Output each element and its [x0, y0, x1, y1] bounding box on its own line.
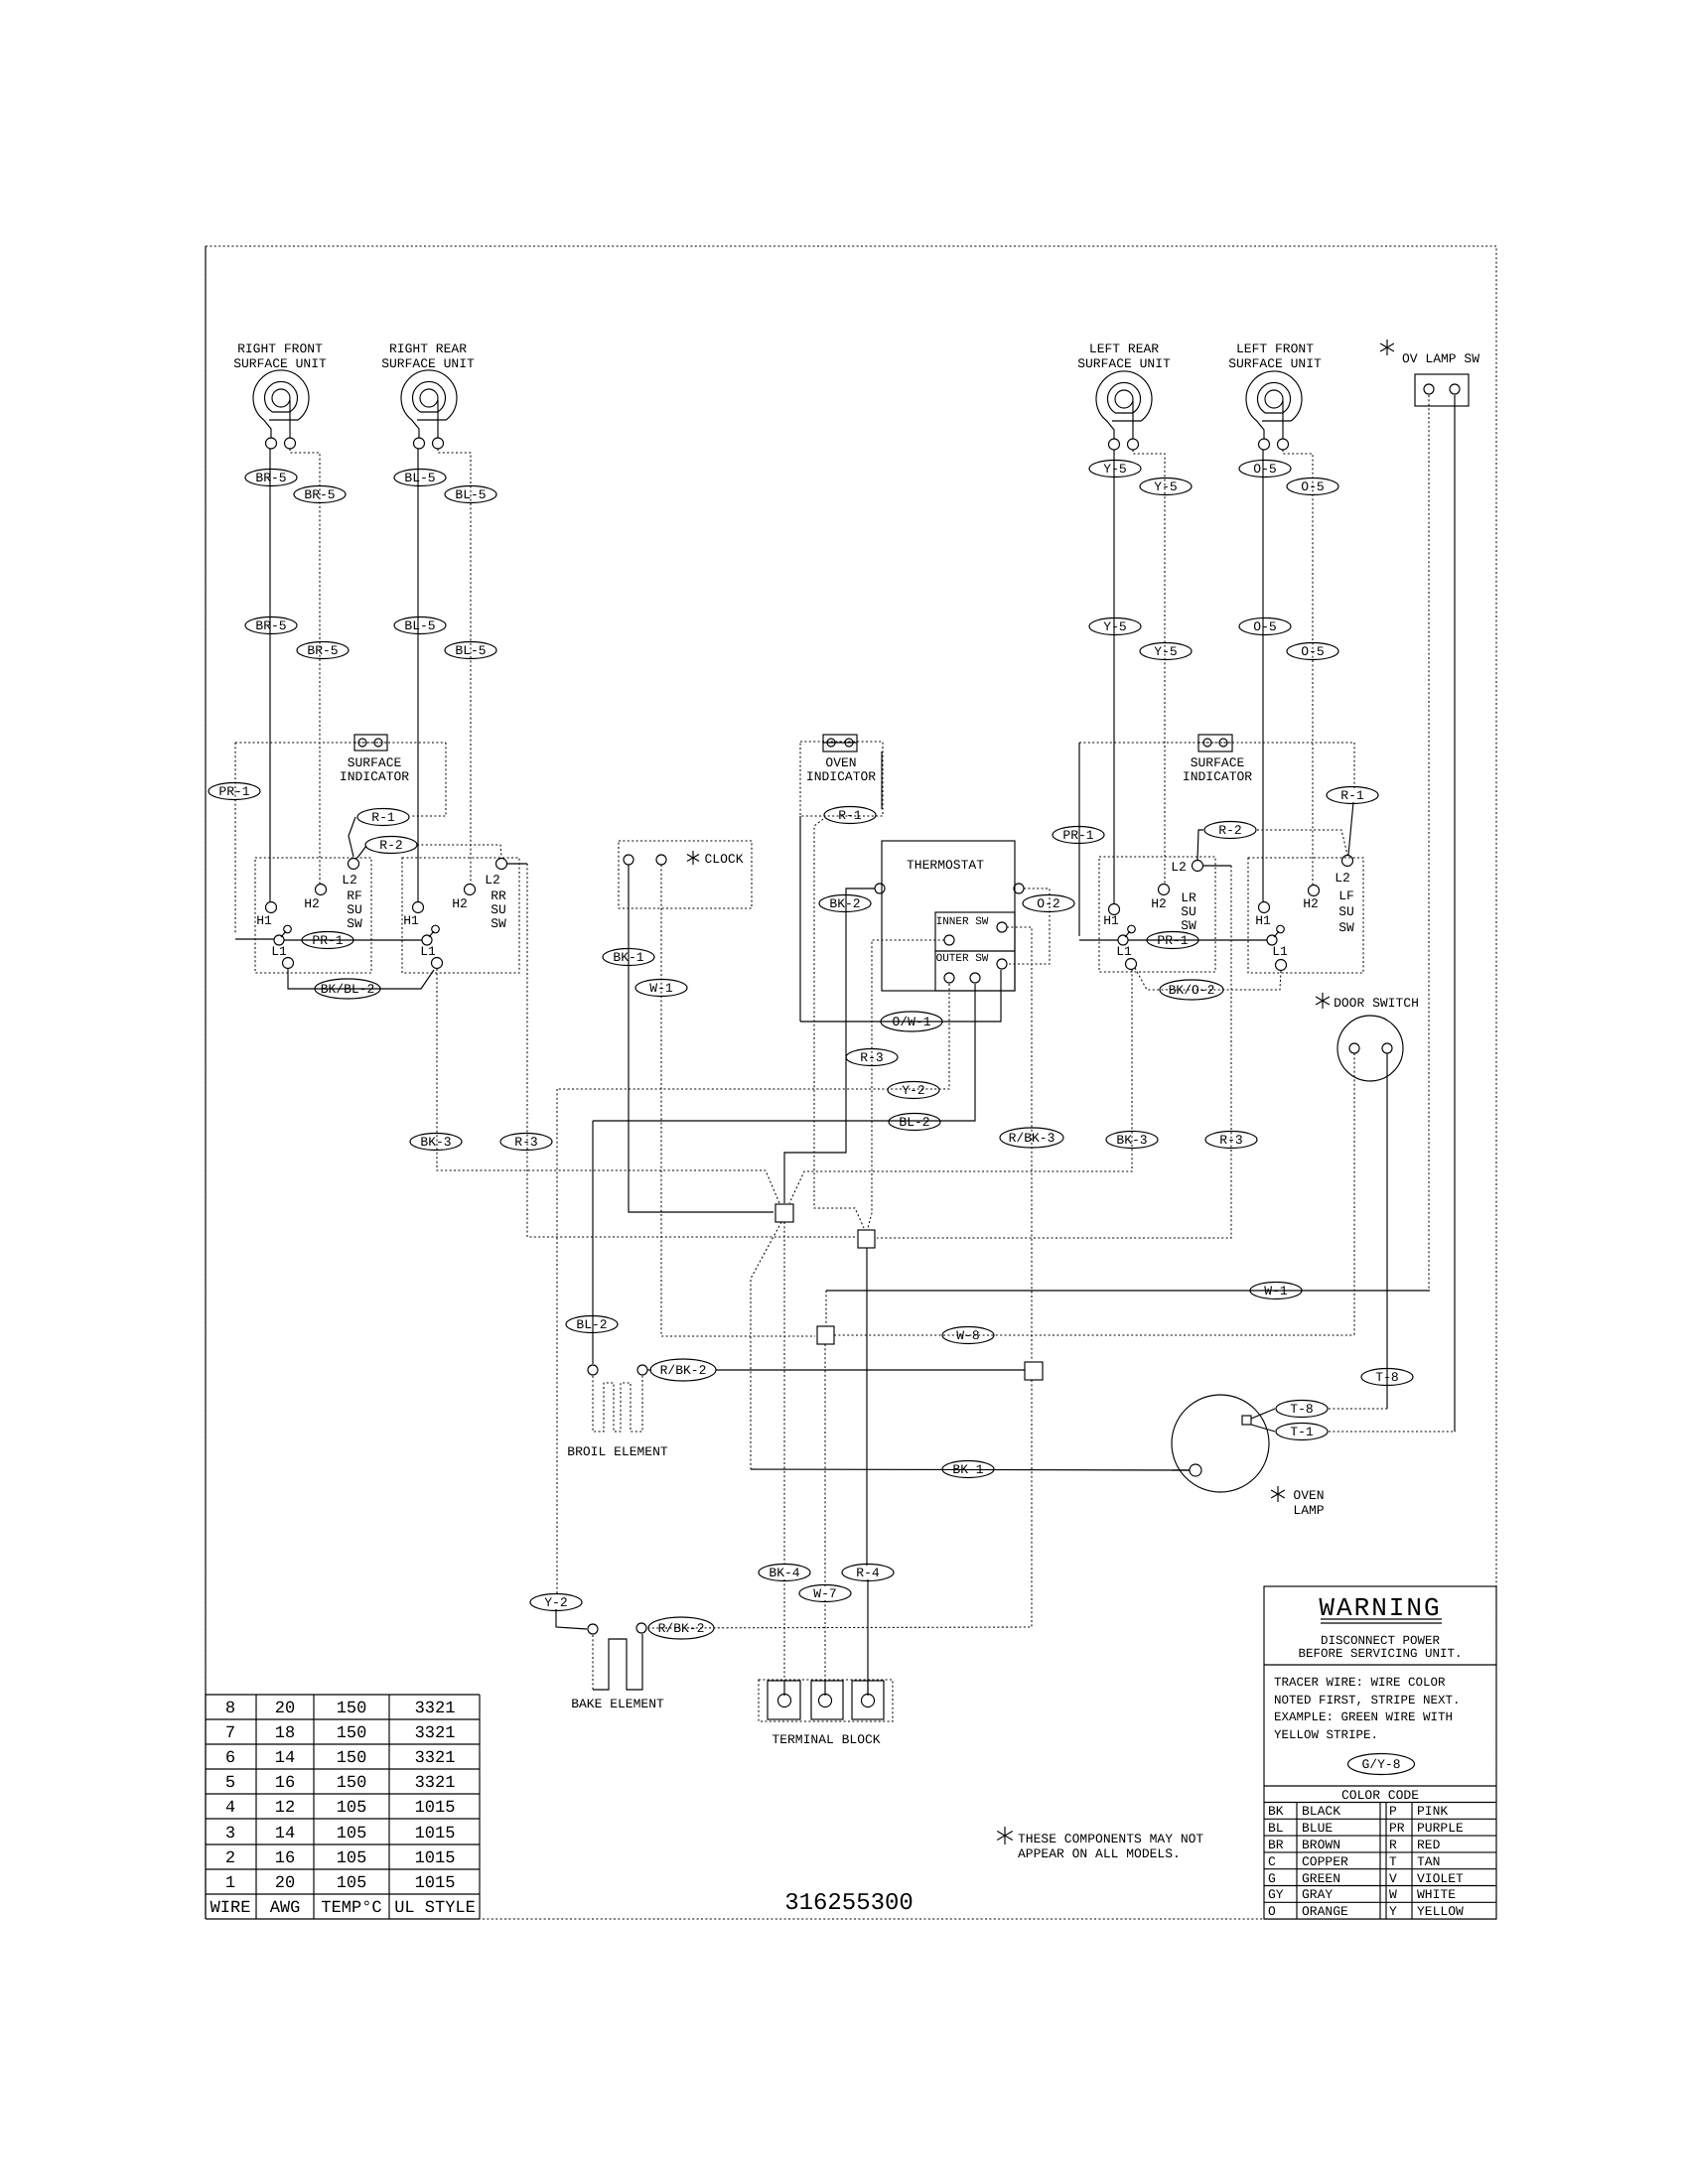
svg-text:R/BK-2: R/BK-2 — [658, 1621, 705, 1636]
wire PR-1 RF-RR pivot bus — [284, 939, 422, 941]
wire label BK-4 — [759, 1565, 810, 1581]
door switch — [1337, 1016, 1403, 1081]
color code table — [1264, 1788, 1496, 1919]
page border left edge — [205, 246, 207, 1919]
svg-text:T-8: T-8 — [1290, 1402, 1313, 1417]
svg-text:TRACER WIRE: WIRE COLOR: TRACER WIRE: WIRE COLOR — [1274, 1676, 1446, 1690]
svg-text:L2: L2 — [342, 873, 357, 887]
svg-text:1015: 1015 — [415, 1799, 456, 1818]
svg-text:SURFACE UNIT: SURFACE UNIT — [1228, 356, 1322, 371]
wire label Y-2 bus — [888, 1082, 939, 1099]
terminal inner sw right — [997, 922, 1007, 932]
thermostat inner switch box — [935, 912, 1015, 951]
svg-text:PR-1: PR-1 — [1157, 933, 1188, 948]
svg-text:LR: LR — [1181, 890, 1196, 905]
thermostat outer switch box — [935, 951, 1015, 991]
svg-text:BL-5: BL-5 — [404, 618, 435, 633]
svg-text:18: 18 — [275, 1724, 295, 1743]
wire T-1 to ov lamp sw — [1329, 1431, 1456, 1433]
wire W-7 junction 3 to terminal block — [824, 1344, 826, 1586]
wire label BK-2 — [819, 895, 871, 912]
svg-text:SURFACE: SURFACE — [348, 755, 402, 770]
terminal bake element left — [588, 1624, 598, 1634]
wire label O-5 a — [1239, 461, 1291, 478]
wire BK-1 junction 1 drop — [751, 1222, 781, 1469]
svg-text:Y: Y — [1389, 1904, 1397, 1919]
svg-text:OVEN: OVEN — [825, 755, 856, 770]
terminal thermostat right — [1014, 884, 1024, 893]
svg-text:H2: H2 — [1303, 896, 1319, 911]
wire label O-5 d — [1287, 643, 1338, 660]
svg-text:DOOR SWITCH: DOOR SWITCH — [1334, 996, 1419, 1011]
svg-text:INDICATOR: INDICATOR — [1183, 769, 1252, 784]
wire label BL-5 b — [445, 486, 496, 503]
svg-text:RR: RR — [491, 888, 506, 903]
wire T-8 to door switch drop — [1329, 1408, 1387, 1410]
wire label R-2 left — [365, 837, 417, 854]
svg-text:L1: L1 — [271, 944, 287, 959]
svg-text:R: R — [1389, 1838, 1397, 1852]
wire R-1 into LF L2 — [1348, 802, 1353, 855]
wire gauge table — [206, 1695, 480, 1919]
surface indicator (left) — [354, 735, 387, 751]
svg-text:Y-5: Y-5 — [1154, 479, 1177, 494]
wire O/W-1 oven indicator left drop — [799, 816, 801, 1022]
terminal LR L1 — [1126, 959, 1137, 970]
svg-text:WHITE: WHITE — [1417, 1887, 1456, 1902]
wire label BR-5 b — [294, 486, 346, 503]
svg-text:SU: SU — [1181, 904, 1196, 919]
svg-text:P: P — [1389, 1804, 1397, 1819]
wire R-1 right indicator vertical — [1353, 743, 1355, 788]
terminal outer sw mid — [970, 973, 980, 983]
wire label R-4 — [842, 1565, 894, 1581]
wire label R-3 x531 — [500, 1134, 552, 1151]
wire BL-2 vertical x597 — [592, 1121, 594, 1364]
svg-text:20: 20 — [275, 1874, 295, 1893]
junction square 1 — [775, 1204, 793, 1222]
svg-text:R-3: R-3 — [514, 1135, 537, 1150]
svg-text:NOTED FIRST, STRIPE NEXT.: NOTED FIRST, STRIPE NEXT. — [1274, 1694, 1461, 1707]
surface unit coil left rear — [1096, 371, 1152, 450]
svg-text:R-3: R-3 — [860, 1050, 883, 1065]
oven lamp — [1172, 1395, 1269, 1492]
terminal LF H2 — [1309, 886, 1320, 896]
svg-text:SU: SU — [347, 902, 362, 917]
wire R-4 junction 2 to terminal block — [866, 1248, 868, 1566]
svg-text:THESE COMPONENTS MAY NOT: THESE COMPONENTS MAY NOT — [1018, 1832, 1203, 1846]
svg-text:LEFT REAR: LEFT REAR — [1089, 341, 1159, 356]
svg-text:H2: H2 — [1151, 896, 1167, 911]
svg-text:16: 16 — [275, 1774, 295, 1793]
svg-text:GRAY: GRAY — [1302, 1887, 1333, 1902]
svg-text:O-5: O-5 — [1301, 644, 1324, 659]
terminal clock 1 — [624, 855, 633, 865]
wire PR-1/R-1 left indicator horizontal — [235, 742, 446, 744]
svg-text:UL STYLE: UL STYLE — [394, 1899, 476, 1918]
wire label Y-5 d — [1140, 643, 1192, 660]
bake element — [592, 1635, 594, 1690]
svg-text:H1: H1 — [1255, 913, 1271, 928]
wire R-2 to LF L2 — [1257, 830, 1347, 855]
junction square 4 — [1025, 1362, 1043, 1380]
wire PR-1 to RF pivot — [235, 938, 274, 940]
switch pivot LF — [1267, 925, 1284, 945]
wire R/BK-2 broil to junction 4 — [716, 1369, 1025, 1371]
wire label BK-1 bus — [942, 1461, 994, 1478]
wire BL-5 RR H1 drop — [417, 449, 419, 901]
wire BR-5 RF H1 drop — [269, 449, 271, 901]
wire BK-4 junction 1 to terminal block — [783, 1222, 785, 1567]
svg-text:H1: H1 — [256, 913, 272, 928]
surface unit coil right rear — [401, 370, 457, 449]
wire BK-1 clock to junction 1 — [629, 865, 774, 1212]
svg-text:BAKE ELEMENT: BAKE ELEMENT — [571, 1697, 664, 1711]
svg-text:H2: H2 — [452, 896, 468, 911]
switch pivot RR — [422, 925, 439, 945]
terminal broil element left — [588, 1365, 598, 1375]
wire PR-1 left vertical — [234, 743, 236, 934]
wire T-8 door switch right drop — [1386, 1053, 1388, 1409]
svg-text:3321: 3321 — [415, 1700, 456, 1718]
wire BK/O-2 LR L1 to LF L1 — [1135, 968, 1281, 990]
svg-text:AWG: AWG — [270, 1899, 301, 1918]
svg-text:PURPLE: PURPLE — [1417, 1821, 1464, 1836]
svg-text:PR: PR — [1389, 1821, 1405, 1836]
svg-text:105: 105 — [337, 1799, 367, 1818]
svg-text:BK-1: BK-1 — [613, 950, 643, 965]
svg-text:R/BK-2: R/BK-2 — [660, 1363, 707, 1378]
switch box RR SU SW — [402, 858, 519, 973]
wire PR-1 LR-LF pivot bus — [1128, 939, 1267, 941]
wire Y-5 LR H1 drop — [1113, 450, 1115, 903]
svg-text:14: 14 — [275, 1825, 295, 1843]
wire O-5 LF H1 drop — [1262, 450, 1264, 901]
wire label R-1 oven indicator — [824, 807, 876, 824]
svg-text:O-5: O-5 — [1253, 619, 1276, 634]
svg-text:W-8: W-8 — [956, 1328, 979, 1343]
svg-text:14: 14 — [275, 1749, 295, 1768]
svg-text:O/W-1: O/W-1 — [892, 1015, 930, 1029]
wire W-8 bus — [834, 1334, 1354, 1336]
svg-text:CLOCK: CLOCK — [704, 852, 743, 867]
svg-text:OV LAMP SW: OV LAMP SW — [1402, 351, 1479, 366]
asterisk door switch — [1316, 993, 1330, 1009]
svg-text:PINK: PINK — [1417, 1804, 1448, 1819]
wire R-2 to RR L2 — [417, 845, 501, 857]
switch box LR SU SW — [1099, 857, 1215, 972]
svg-text:H1: H1 — [1103, 913, 1119, 928]
svg-text:EXAMPLE: GREEN WIRE WITH: EXAMPLE: GREEN WIRE WITH — [1274, 1710, 1453, 1724]
wire label T-8 lamp — [1276, 1401, 1328, 1418]
ov lamp switch box — [1415, 374, 1469, 406]
svg-text:V: V — [1389, 1871, 1397, 1886]
wire BK-1 bus to oven lamp — [751, 1469, 1190, 1470]
wire label Y-5 b — [1140, 478, 1192, 495]
svg-text:RIGHT REAR: RIGHT REAR — [389, 341, 467, 356]
svg-text:Y-2: Y-2 — [902, 1083, 924, 1098]
svg-text:SW: SW — [1181, 918, 1196, 933]
svg-text:OVEN: OVEN — [1293, 1488, 1324, 1503]
wire R/BK-2 junction 4 to bake element — [647, 1380, 1032, 1628]
wire R-1 into RF L2 — [349, 817, 355, 857]
svg-text:H1: H1 — [403, 913, 419, 928]
svg-text:YELLOW: YELLOW — [1417, 1904, 1464, 1919]
svg-text:BK: BK — [1268, 1804, 1284, 1819]
svg-text:DISCONNECT POWER: DISCONNECT POWER — [1321, 1634, 1441, 1648]
svg-text:R-1: R-1 — [838, 808, 862, 823]
wire BK-2 thermostat to junction 1 — [784, 888, 875, 1203]
svg-text:12: 12 — [275, 1799, 295, 1818]
wire label G/Y-8 example — [1348, 1754, 1415, 1775]
svg-text:Y-5: Y-5 — [1103, 619, 1126, 634]
svg-text:INNER SW: INNER SW — [936, 916, 989, 928]
svg-text:OUTER SW: OUTER SW — [936, 953, 989, 965]
wire R/BK-3 inner sw to junction 4 — [1007, 927, 1032, 1361]
svg-text:4: 4 — [225, 1799, 235, 1818]
svg-text:T-8: T-8 — [1375, 1370, 1398, 1385]
svg-text:PR-1: PR-1 — [1062, 828, 1093, 843]
wire label BL-5 d — [445, 642, 496, 659]
wire Y-2 outer sw bus — [557, 984, 949, 1089]
svg-text:ORANGE: ORANGE — [1302, 1904, 1348, 1919]
wire W-1 ov lamp sw left drop — [1428, 395, 1430, 1291]
svg-text:RIGHT FRONT: RIGHT FRONT — [237, 341, 323, 356]
surface unit coil left front — [1246, 371, 1302, 450]
terminal RR L2 — [496, 859, 507, 870]
svg-text:2: 2 — [225, 1849, 235, 1868]
svg-text:COLOR CODE: COLOR CODE — [1341, 1788, 1419, 1803]
svg-text:R-2: R-2 — [1218, 823, 1241, 838]
wire Y-2 to bake element — [556, 1609, 587, 1629]
wire label BK-3 right — [1106, 1132, 1158, 1149]
svg-text:105: 105 — [337, 1849, 367, 1868]
svg-text:BL: BL — [1268, 1821, 1284, 1836]
terminal bake element right — [636, 1623, 646, 1633]
wire label BL-2 bus — [889, 1114, 940, 1131]
wire BK-4 lower — [783, 1579, 785, 1694]
svg-text:YELLOW STRIPE.: YELLOW STRIPE. — [1274, 1728, 1378, 1742]
svg-text:BK-3: BK-3 — [420, 1135, 451, 1150]
svg-text:BR-5: BR-5 — [304, 487, 335, 502]
svg-text:APPEAR ON ALL MODELS.: APPEAR ON ALL MODELS. — [1018, 1846, 1181, 1861]
svg-text:INDICATOR: INDICATOR — [340, 769, 409, 784]
switch box RF SU SW — [255, 858, 371, 973]
surface indicator (right) — [1198, 735, 1232, 751]
svg-text:L2: L2 — [1171, 860, 1187, 875]
terminal LF H1 — [1259, 902, 1270, 913]
wire PR-1 to LR pivot — [1079, 939, 1118, 941]
svg-text:3321: 3321 — [415, 1749, 456, 1768]
svg-text:R-4: R-4 — [856, 1566, 880, 1580]
terminal block — [759, 1680, 893, 1721]
wire Y-2 vertical x561 — [556, 1089, 558, 1595]
wire label W-1 bus — [1250, 1283, 1302, 1299]
svg-text:R-1: R-1 — [371, 810, 395, 825]
wire label O/W-1 — [881, 1012, 942, 1031]
wire W-1 junction 3 riser — [825, 1291, 827, 1326]
svg-text:BL-2: BL-2 — [576, 1317, 607, 1332]
terminal RR H2 — [465, 885, 476, 895]
wire label Y-5 a — [1089, 461, 1141, 478]
wire R-3 vertical x1240 to junction 2 — [877, 866, 1231, 1238]
wire label T-8 vertical — [1361, 1369, 1413, 1386]
asterisk oven lamp — [1271, 1486, 1285, 1502]
terminal LF L2 — [1342, 856, 1353, 867]
wire label R/BK-3 — [1000, 1128, 1063, 1148]
svg-text:T: T — [1389, 1854, 1397, 1869]
wire O/W-1 bus to outer sw — [800, 970, 1001, 1022]
wire label R-1 right — [1327, 787, 1378, 804]
svg-text:W-1: W-1 — [649, 981, 673, 996]
svg-text:1015: 1015 — [415, 1825, 456, 1843]
svg-text:L1: L1 — [420, 944, 436, 959]
wire label BK-3 left — [410, 1134, 462, 1151]
svg-text:T-1: T-1 — [1290, 1425, 1314, 1439]
svg-text:GY: GY — [1268, 1887, 1284, 1902]
svg-text:SU: SU — [1338, 904, 1354, 919]
wire label BL-2 broil — [566, 1316, 618, 1333]
wire R-3 from LR L2 — [1203, 865, 1231, 867]
wire label R-1 left — [357, 809, 409, 826]
terminal RF H1 — [266, 902, 277, 913]
svg-text:SURFACE UNIT: SURFACE UNIT — [1077, 356, 1171, 371]
wire R-1 oven indicator right drop — [881, 751, 883, 809]
svg-text:COPPER: COPPER — [1302, 1854, 1348, 1869]
svg-text:SURFACE UNIT: SURFACE UNIT — [381, 356, 475, 371]
terminal outer sw left — [944, 973, 954, 983]
svg-text:PR-1: PR-1 — [312, 933, 343, 948]
svg-text:150: 150 — [337, 1774, 367, 1793]
svg-text:PR-1: PR-1 — [218, 784, 249, 799]
terminal RR L1 — [432, 958, 443, 969]
wire BL-2 outer sw bus — [593, 984, 975, 1121]
svg-text:LF: LF — [1338, 888, 1354, 903]
svg-text:BEFORE SERVICING UNIT.: BEFORE SERVICING UNIT. — [1298, 1647, 1462, 1661]
thermostat box — [882, 841, 1015, 991]
svg-text:105: 105 — [337, 1825, 367, 1843]
wire label BL-5 a — [394, 470, 446, 486]
svg-text:GREEN: GREEN — [1302, 1871, 1340, 1886]
svg-text:1015: 1015 — [415, 1849, 456, 1868]
wire O-5 LF H2 drop — [1283, 450, 1313, 885]
wire T-1 ov lamp sw right drop — [1454, 395, 1456, 1432]
svg-text:150: 150 — [337, 1700, 367, 1718]
svg-text:1015: 1015 — [415, 1874, 456, 1893]
svg-text:L1: L1 — [1272, 944, 1288, 959]
svg-text:R-2: R-2 — [379, 838, 402, 853]
svg-text:150: 150 — [337, 1749, 367, 1768]
svg-text:W-1: W-1 — [1264, 1284, 1288, 1298]
wire label BL-5 c — [394, 617, 446, 634]
svg-text:Y-5: Y-5 — [1103, 462, 1126, 477]
svg-text:BLUE: BLUE — [1302, 1821, 1333, 1836]
svg-text:BR-5: BR-5 — [307, 643, 338, 658]
svg-text:105: 105 — [337, 1874, 367, 1893]
wire label Y-2 bake — [530, 1594, 582, 1611]
svg-text:Y-2: Y-2 — [544, 1595, 567, 1610]
wire BK/BL-2 RF L1 to RR L1 — [288, 969, 434, 989]
wire label R/BK-2 broil — [650, 1359, 716, 1381]
svg-text:BL-5: BL-5 — [455, 487, 486, 502]
svg-text:SW: SW — [347, 916, 362, 931]
wire label O-2 — [1023, 895, 1074, 912]
svg-text:LEFT FRONT: LEFT FRONT — [1236, 341, 1314, 356]
asterisk footnote — [997, 1827, 1013, 1844]
svg-text:TAN: TAN — [1417, 1854, 1440, 1869]
svg-text:VIOLET: VIOLET — [1417, 1871, 1464, 1886]
svg-text:L2: L2 — [485, 873, 500, 887]
switch box LF SU SW — [1248, 858, 1363, 973]
terminal clock 2 — [656, 855, 666, 865]
svg-text:L2: L2 — [1335, 871, 1350, 886]
wire R-4 lower — [867, 1579, 869, 1694]
svg-text:150: 150 — [337, 1724, 367, 1743]
svg-text:SW: SW — [491, 916, 506, 931]
wire R-1 left indicator to RF L2 — [410, 743, 446, 816]
svg-text:O: O — [1268, 1904, 1276, 1919]
svg-text:8: 8 — [225, 1700, 235, 1718]
wire PR-1 right vertical — [1078, 743, 1080, 936]
oven indicator dotted box — [800, 742, 883, 816]
svg-text:BK-2: BK-2 — [829, 896, 860, 911]
wire R-2 from RF L2 — [357, 846, 366, 858]
svg-text:BR-5: BR-5 — [255, 471, 286, 485]
wire BL-5 RR H2 drop — [438, 449, 471, 884]
svg-text:1: 1 — [225, 1874, 235, 1893]
surface unit coil right front — [253, 370, 309, 449]
svg-text:O-2: O-2 — [1037, 896, 1059, 911]
svg-text:R-3: R-3 — [1219, 1133, 1242, 1148]
wire T-8 lamp to oval — [1251, 1409, 1275, 1419]
wire label Y-5 c — [1089, 618, 1141, 635]
svg-text:3321: 3321 — [415, 1724, 456, 1743]
svg-text:R/BK-3: R/BK-3 — [1009, 1131, 1055, 1146]
wire W-8 door switch left drop — [1353, 1053, 1355, 1335]
terminal broil element right — [637, 1365, 647, 1375]
svg-text:L1: L1 — [1116, 944, 1132, 959]
svg-text:Y-5: Y-5 — [1154, 644, 1177, 659]
svg-text:BROIL ELEMENT: BROIL ELEMENT — [567, 1444, 668, 1459]
svg-text:C: C — [1268, 1854, 1276, 1869]
svg-text:6: 6 — [225, 1749, 235, 1768]
asterisk OV LAMP SW — [1380, 340, 1394, 355]
svg-text:SURFACE: SURFACE — [1191, 755, 1245, 770]
asterisk clock — [687, 851, 699, 865]
wire W-7 lower — [824, 1600, 826, 1694]
svg-text:316255300: 316255300 — [784, 1890, 914, 1917]
wire label R-2 right — [1204, 822, 1256, 839]
wire label BR-5 d — [297, 642, 349, 659]
terminal RR H1 — [413, 902, 424, 913]
svg-text:O-5: O-5 — [1253, 462, 1276, 477]
wire R/BK-2 broil stub — [647, 1369, 651, 1371]
wire label PR-1 right b — [1147, 932, 1198, 949]
svg-text:LAMP: LAMP — [1293, 1503, 1324, 1518]
svg-text:BK/BL-2: BK/BL-2 — [321, 982, 375, 997]
wire PR-1/R-1 right indicator horizontal — [1079, 742, 1354, 744]
svg-text:BL-2: BL-2 — [899, 1115, 929, 1130]
broil element — [593, 1376, 642, 1432]
svg-text:SW: SW — [1338, 920, 1354, 935]
wire label PR-1 left a — [209, 783, 260, 800]
svg-text:TERMINAL BLOCK: TERMINAL BLOCK — [772, 1732, 880, 1747]
warning box — [1264, 1586, 1496, 1919]
svg-text:O-5: O-5 — [1301, 479, 1324, 494]
svg-text:BROWN: BROWN — [1302, 1838, 1340, 1852]
svg-text:RF: RF — [347, 888, 362, 903]
svg-text:G/Y-8: G/Y-8 — [1361, 1757, 1400, 1772]
